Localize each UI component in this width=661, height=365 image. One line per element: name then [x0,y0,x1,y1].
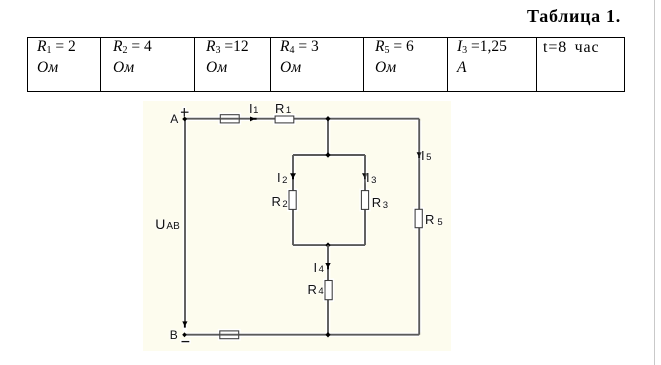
arrow I5 on right wire [417,152,422,158]
fuse F1 on top wire [220,115,239,123]
value label I3 = 1,25 A [448,38,537,92]
node label B [170,329,178,341]
current label I5 [421,149,431,163]
node B dot [182,332,187,337]
resistor label R4 [308,283,324,297]
table caption "Таблица 1." [527,6,621,27]
resistor label R1 [275,102,291,116]
node junction parallel bottom [325,242,330,247]
node junction on top wire [325,116,330,121]
wire: bottom horizontal B to bottom-right corner [185,334,419,336]
arrow I2 [290,173,296,179]
resistor R2 box [289,191,296,210]
value label R1 = 2 Ом [28,38,101,92]
wire: left vertical A to B [184,119,186,323]
wire: right vertical [418,119,420,335]
window edge gray line [654,0,656,365]
current label I2 [277,171,287,185]
node A dot [182,117,187,122]
value label R2 = 4 Ом [101,38,195,92]
resistor R4 box [325,281,332,300]
value label R4 = 3 Ом [271,38,364,92]
resistor R1 box [275,116,294,123]
resistor label R2 [272,195,288,209]
resistor label R5 [425,213,443,227]
plus sign at node A [183,108,185,117]
minus sign at node B [182,341,190,343]
node junction bottom wire [325,332,330,337]
current label I3 [366,171,376,185]
resistor R5 box [415,209,422,227]
wire: middle vertical from parallel bottom to bottom wire [327,245,329,335]
wire: top horizontal A to top-right corner [185,118,419,120]
arrow I4 [325,263,330,269]
wire: middle vertical from top wire to parallel top [327,119,329,155]
wire: left branch vertical [292,155,294,245]
current label I1 [249,102,258,116]
value label R3 = 12 Ом [195,38,271,92]
resistor label R3 [372,196,388,210]
node label A [170,113,178,125]
current label I4 [314,261,324,275]
value label t = 8 час [537,38,625,92]
schematic background [143,101,451,351]
arrow I3 [362,173,368,179]
resistor R3 box [361,191,368,210]
background halo layer (white ringing around strokes) [179,107,422,342]
arrow I1 on top wire [250,117,257,122]
wire: parallel section top horizontal [293,154,365,156]
voltage label UAB [155,217,179,232]
arrow into node B [182,321,187,327]
fuse F2 on bottom wire [220,331,239,339]
value label R5 = 6 Ом [364,38,448,92]
parameters table [27,37,625,92]
node junction parallel top [325,152,330,157]
wire: parallel section bottom horizontal [293,244,365,246]
wire: right branch vertical [364,155,366,245]
